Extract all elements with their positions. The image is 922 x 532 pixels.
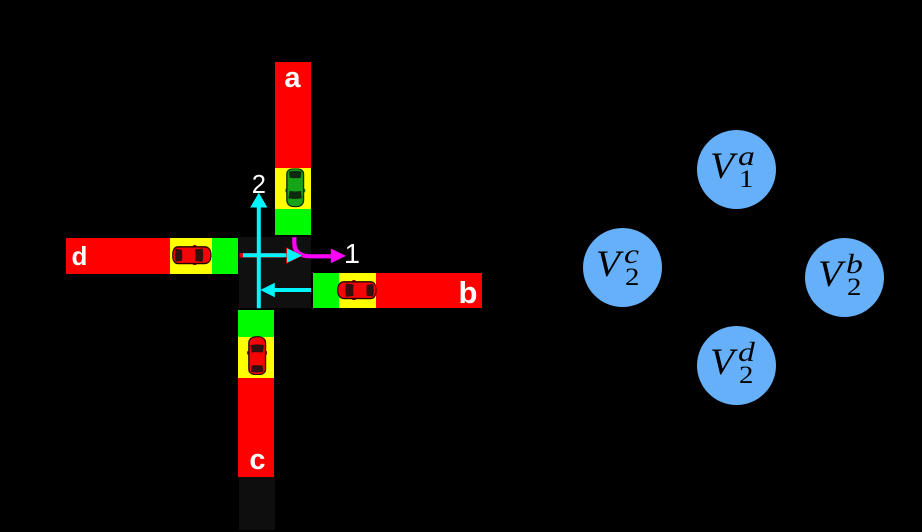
red underlay arrow (east) <box>240 247 304 263</box>
road d red segment <box>66 238 170 274</box>
car on road d (red, facing right) <box>172 245 212 265</box>
label d <box>39 243 119 269</box>
cyan arrow east (straight through) <box>243 248 302 263</box>
intersection pavement square <box>239 237 311 308</box>
node V2c <box>583 228 662 307</box>
road c yellow segment <box>238 337 274 378</box>
magenta turn arrow (phase 1 right turn) <box>294 237 346 263</box>
road a green segment <box>275 209 311 235</box>
road c green segment <box>238 310 274 337</box>
cyan arrow north (phase 2) <box>250 193 267 308</box>
road a red segment <box>275 62 311 168</box>
cyan arrow west <box>260 283 311 297</box>
road c red segment <box>238 378 274 477</box>
label 1 (phase one) <box>312 240 392 268</box>
node V2b <box>805 238 884 317</box>
label 2 (phase two) <box>219 173 299 199</box>
car on road c (red, facing up) <box>247 336 267 375</box>
node V2d <box>697 326 776 405</box>
car on road b (red, facing left) <box>337 280 377 300</box>
road c pavement stub below <box>239 477 275 530</box>
road d green segment <box>212 238 238 274</box>
road b green segment <box>313 273 339 308</box>
label c <box>218 446 298 475</box>
node V1a <box>697 130 776 209</box>
car on road a (green, facing down) <box>285 168 305 207</box>
label b <box>428 277 508 308</box>
road d yellow segment <box>170 238 212 274</box>
road b red segment <box>376 273 482 308</box>
road a yellow segment <box>275 168 311 209</box>
road b yellow segment <box>339 273 376 308</box>
label a <box>253 64 333 93</box>
